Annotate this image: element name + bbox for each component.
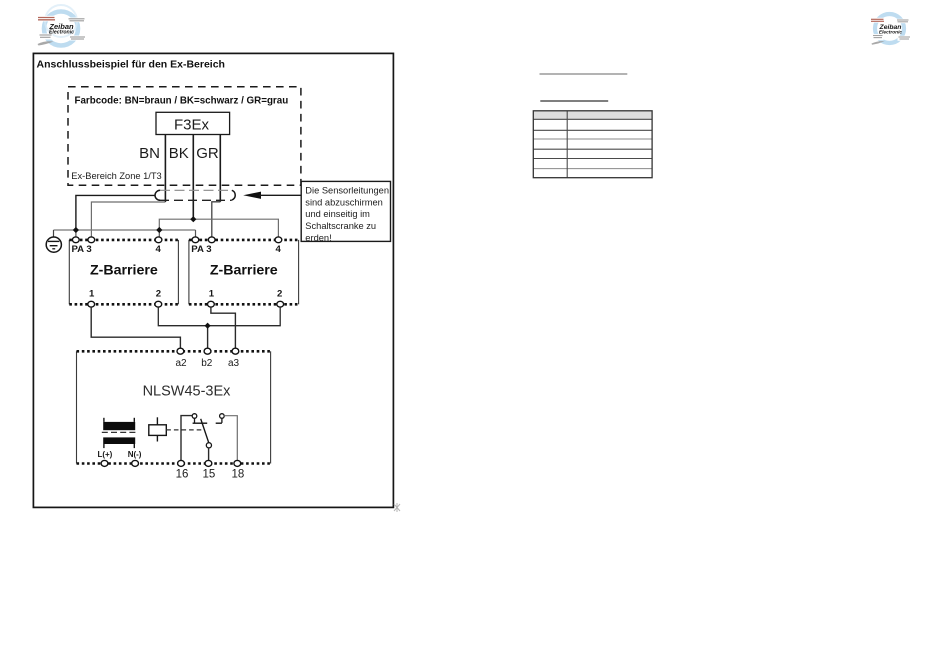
data table: [533, 111, 652, 178]
NLSW terminal a2: [177, 348, 184, 354]
svg-text:18: 18: [232, 469, 245, 481]
svg-text:1: 1: [209, 289, 215, 300]
svg-text:Ex-Bereich Zone 1/T3: Ex-Bereich Zone 1/T3: [71, 171, 161, 181]
Z-Barriere 2 terminal 4: [275, 237, 282, 243]
wire bus drop to PA2: [195, 230, 197, 237]
wire GR vertical: [219, 135, 221, 202]
Z-Barriere 1 terminal 4: [155, 237, 162, 243]
junction at barrier1 terminal 4: [156, 227, 162, 233]
contact circle 16: [192, 414, 197, 419]
svg-text:a2: a2: [175, 358, 187, 369]
svg-text:GR: GR: [196, 145, 219, 162]
contact lever: [201, 419, 209, 443]
Z-Barriere 2 terminal 1: [208, 301, 215, 307]
wire terminal 18 riser: [224, 416, 237, 464]
svg-text:Schaltscranke zu: Schaltscranke zu: [305, 221, 376, 231]
wire bus drop to barrier1 terminal 4: [158, 230, 160, 237]
Z-Barriere 2 terminal 2: [277, 301, 284, 307]
NLSW bottom terminal N: [132, 460, 139, 466]
svg-text:1: 1: [89, 289, 95, 300]
NLSW bottom terminal 15: [205, 460, 212, 466]
Z-Barriere 1 terminal 3: [88, 237, 95, 243]
wire BK link bus: [159, 219, 278, 237]
svg-text:Electronic: Electronic: [49, 30, 74, 36]
svg-text:2: 2: [156, 289, 161, 300]
NLSW terminal labels a2 b2 a3: [175, 358, 239, 369]
svg-text:Die Sensorleitungen: Die Sensorleitungen: [305, 185, 389, 195]
wire BN link to barrier1 terminal 3: [91, 202, 165, 237]
svg-text:a3: a3: [228, 358, 240, 369]
Z-Barriere 1 terminal PA: [72, 237, 79, 243]
svg-text:PA 3: PA 3: [191, 244, 211, 255]
Z-Barriere 2 terminal PA: [192, 237, 199, 243]
wire BN vertical: [164, 135, 166, 203]
transformer T: [102, 418, 137, 448]
junction at PA1: [73, 227, 79, 233]
svg-text:L(+): L(+): [97, 450, 112, 459]
Z-Barriere 1 pin labels: [72, 244, 162, 300]
svg-text:F3Ex: F3Ex: [174, 116, 210, 133]
svg-text:Farbcode: BN=braun / BK=schwar: Farbcode: BN=braun / BK=schwarz / GR=gra…: [75, 95, 289, 106]
svg-text:Z-Barriere: Z-Barriere: [90, 263, 158, 279]
note box Die Sensorleitungen: [301, 181, 390, 241]
contact seat 18: [221, 418, 223, 423]
ground symbol: [46, 230, 61, 252]
svg-text:N(-): N(-): [128, 450, 142, 459]
svg-text:sind abzuschirmen: sind abzuschirmen: [305, 197, 383, 207]
contact seat 16: [194, 418, 196, 423]
Z-Barriere 2 box: [189, 240, 299, 304]
svg-text:b2: b2: [201, 358, 213, 369]
contact circle 18: [220, 414, 225, 419]
sensor F3Ex box: [156, 112, 230, 134]
Z-Barriere 2 pin labels: [191, 244, 282, 300]
shield capsule around sensor wires: [155, 190, 235, 200]
wire GR link to barrier2 terminal 3: [212, 202, 221, 237]
Z-Barriere 1 box: [69, 240, 178, 304]
svg-text:15: 15: [203, 469, 216, 481]
svg-text:Z-Barriere: Z-Barriere: [210, 263, 278, 279]
contact common circle: [206, 443, 211, 448]
svg-text:erden!: erden!: [305, 233, 331, 243]
svg-text:4: 4: [276, 244, 282, 255]
wire bus drop to b2: [207, 326, 209, 349]
NLSW bottom terminal 18: [234, 460, 241, 466]
wire shield to ground bus: [76, 195, 155, 230]
NLSW bottom terminal 16: [178, 460, 185, 466]
Ex-Bereich dashed zone box: [68, 87, 301, 186]
Z-Barriere 2 terminal 3: [208, 237, 215, 243]
diagram border: [33, 53, 393, 507]
NLSW45-3Ex box: [77, 351, 271, 463]
linkage dashed coil to contact: [166, 429, 205, 431]
wire terminal 15 riser: [208, 448, 210, 464]
NLSW bottom terminal L: [101, 460, 108, 466]
svg-text:BK: BK: [169, 145, 189, 162]
Z-Barriere 1 terminal 1: [88, 301, 95, 307]
wire barrier1-1 to a2: [91, 307, 180, 348]
svg-text:PA 3: PA 3: [72, 244, 92, 255]
svg-text:Electronic: Electronic: [879, 30, 903, 36]
note arrow: [243, 192, 261, 199]
svg-text:BN: BN: [139, 145, 160, 162]
relay coil K: [149, 417, 167, 441]
svg-text:Anschlussbeispiel für den Ex-B: Anschlussbeispiel für den Ex-Bereich: [37, 59, 225, 71]
logo left: [38, 5, 87, 46]
wire BK vertical: [192, 135, 194, 220]
labels 16 15 18: [176, 469, 245, 481]
Z-Barriere 1 terminal 2: [155, 301, 162, 307]
svg-text:2: 2: [277, 289, 282, 300]
svg-text:und einseitig im: und einseitig im: [305, 209, 370, 219]
NLSW terminal b2: [204, 348, 211, 354]
heading underline 1: [540, 73, 628, 75]
NLSW terminal a3: [232, 348, 239, 354]
wire bus drop to PA1: [75, 230, 77, 237]
heading underline 2: [540, 100, 608, 102]
svg-text:16: 16: [176, 469, 189, 481]
junction at b2 bus: [205, 323, 211, 329]
junction BK shield bus: [190, 216, 196, 222]
wire barrier2-1 to a3: [211, 307, 236, 348]
svg-text:NLSW45-3Ex: NLSW45-3Ex: [143, 383, 232, 399]
wire terminal 16 riser: [181, 416, 192, 464]
artifact mark near frame corner: [394, 503, 400, 512]
wire barrier1-2 to barrier2-2 bus: [158, 307, 280, 326]
svg-text:4: 4: [156, 244, 162, 255]
ground bus wire: [54, 229, 196, 231]
logo right: [870, 14, 912, 45]
